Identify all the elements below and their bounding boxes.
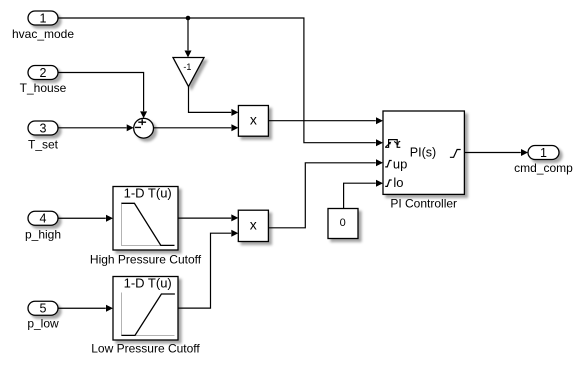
PI controller U1 <box>383 111 464 194</box>
lookup table L2 Low Pressure Cutoff <box>113 276 178 341</box>
pin 2 reset icon <box>385 140 400 148</box>
output saturation icon <box>450 150 461 158</box>
product P1 <box>238 106 268 137</box>
inport 3 (T_set) <box>28 121 58 136</box>
sum S1 <box>134 118 154 138</box>
inport 1 (hvac_mode) <box>28 11 58 26</box>
lookup table L1 High Pressure Cutoff <box>113 186 178 251</box>
svg-text:x: x <box>250 217 257 233</box>
outport 1 (cmd_comp) <box>528 146 559 161</box>
wire gain to product1 <box>189 87 239 116</box>
wire branch to gain <box>185 18 192 58</box>
wire T_house to sum <box>58 73 147 119</box>
svg-text:0: 0 <box>340 217 346 229</box>
svg-text:1-D T(u): 1-D T(u) <box>124 186 172 201</box>
wire p_high to high lookup <box>58 215 113 222</box>
constant K1 (0) <box>328 209 358 239</box>
wire product2 to PI up port <box>268 159 383 228</box>
svg-text:-1: -1 <box>183 62 191 72</box>
svg-text:PI(s): PI(s) <box>410 145 436 159</box>
svg-text:Low Pressure Cutoff: Low Pressure Cutoff <box>91 341 200 355</box>
inport 2 (T_house) <box>28 66 58 81</box>
svg-text:p_low: p_low <box>27 317 59 331</box>
wire sum to product1 <box>153 124 238 131</box>
wire low lookup to product2 <box>178 230 238 308</box>
junction node on hvac_mode wire <box>186 16 191 21</box>
svg-text:T_house: T_house <box>20 81 67 95</box>
pin 4 icon (lo) <box>385 180 392 186</box>
wire hvac_mode to PI reset port <box>58 18 383 146</box>
wire p_low to low lookup <box>58 305 113 312</box>
product P2 <box>238 210 268 241</box>
svg-text:PI Controller: PI Controller <box>390 197 457 211</box>
svg-text:5: 5 <box>40 302 47 316</box>
wire constant to PI lo port <box>344 180 383 209</box>
wire T_set to sum <box>58 124 134 131</box>
wire high lookup to product2 <box>178 214 238 221</box>
inport 5 (p_low) <box>28 301 58 315</box>
svg-text:cmd_comp: cmd_comp <box>514 161 573 175</box>
svg-text:p_high: p_high <box>25 227 61 241</box>
svg-text:x: x <box>250 111 257 127</box>
wire PI to outport <box>464 149 528 156</box>
svg-text:1: 1 <box>40 12 47 26</box>
svg-text:hvac_mode: hvac_mode <box>12 27 74 41</box>
gain G1 (-1) <box>173 58 204 87</box>
svg-text:T_set: T_set <box>28 137 59 151</box>
svg-text:4: 4 <box>40 212 47 226</box>
svg-text:lo: lo <box>393 175 403 190</box>
inport 4 (p_high) <box>28 211 58 225</box>
svg-text:1-D T(u): 1-D T(u) <box>124 276 172 291</box>
svg-text:1: 1 <box>540 146 547 160</box>
svg-text:up: up <box>393 157 407 172</box>
svg-text:2: 2 <box>40 66 47 80</box>
svg-text:3: 3 <box>40 122 47 136</box>
svg-text:High Pressure Cutoff: High Pressure Cutoff <box>90 253 202 267</box>
wire product1 to PI port1 <box>268 117 383 124</box>
pin 3 icon (up) <box>385 161 392 167</box>
